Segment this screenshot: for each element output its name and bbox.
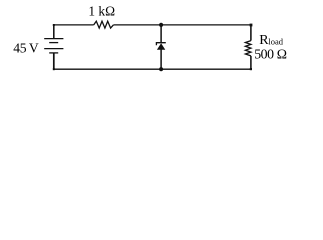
corner blob bottom-right bbox=[250, 68, 252, 70]
wire bottom-left up to battery negative plate bbox=[53, 53, 55, 69]
svg-text:500 Ω: 500 Ω bbox=[254, 47, 287, 62]
resistor R1 zigzag 1 kΩ bbox=[94, 21, 114, 28]
battery V1 short plate 1 bbox=[49, 42, 58, 44]
wire bottom bbox=[54, 68, 251, 70]
battery V1 short plate 2 bbox=[49, 52, 58, 54]
svg-text:45 V: 45 V bbox=[13, 41, 39, 56]
corner blob bottom-left bbox=[53, 68, 55, 70]
wire right vertical bottom bbox=[250, 56, 252, 69]
zener diode anode triangle (apex up) bbox=[157, 43, 165, 50]
wire top-left from battery positive plate up and right to resistor bbox=[53, 25, 55, 39]
svg-text:1 kΩ: 1 kΩ bbox=[88, 4, 115, 19]
wire zener branch lower bbox=[160, 50, 162, 70]
wire zener branch upper bbox=[160, 25, 162, 42]
node junction dot bottom bbox=[159, 67, 163, 71]
battery V1 long plate 2 bbox=[44, 48, 63, 50]
resistor Rload zigzag 500 Ω bbox=[245, 41, 251, 56]
node junction dot top bbox=[159, 23, 163, 27]
wire top middle from resistor to top-right corner bbox=[113, 24, 251, 26]
battery V1 long plate 1 bbox=[44, 38, 63, 40]
wire right vertical top bbox=[250, 25, 252, 41]
corner blob top-left bbox=[53, 24, 55, 26]
corner blob top-right bbox=[250, 24, 253, 27]
svg-text:Rload: Rload bbox=[259, 33, 284, 48]
zener diode cathode bar with left bent tick bbox=[156, 43, 165, 46]
